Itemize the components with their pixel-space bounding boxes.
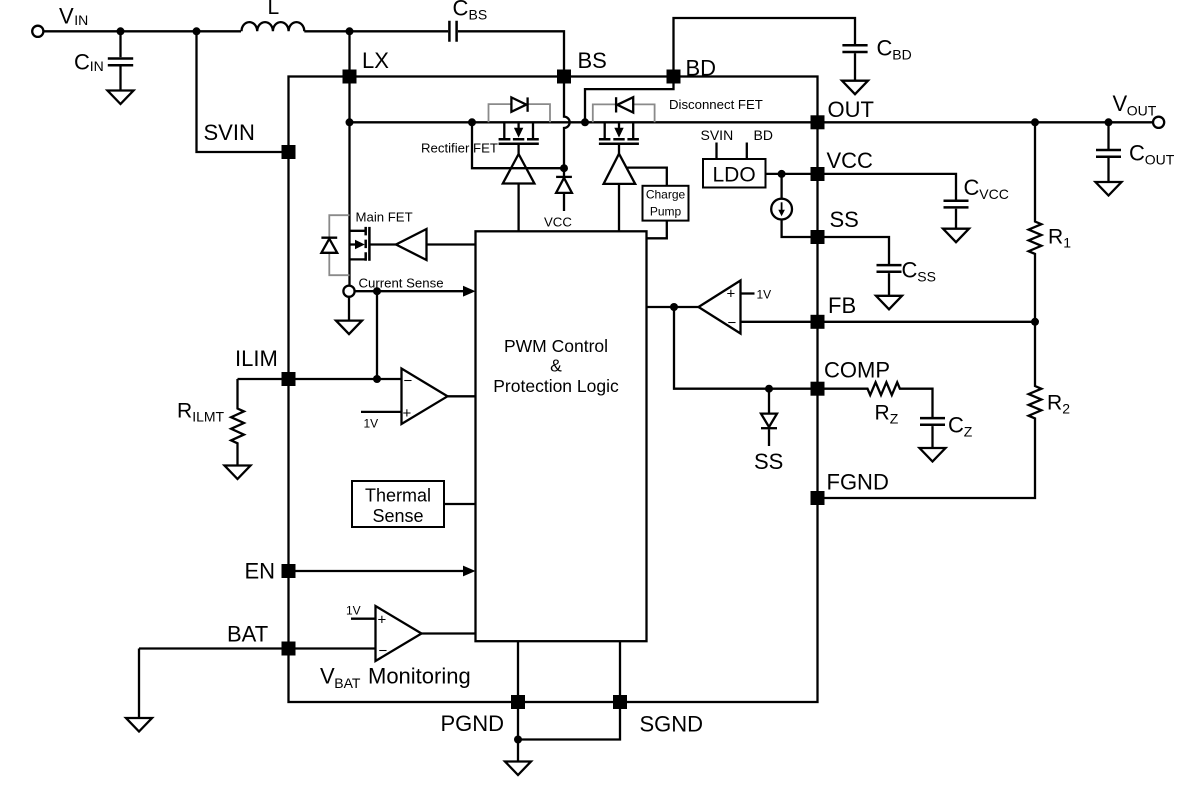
- svg-text:−: −: [379, 642, 388, 659]
- block PWM control: [476, 231, 647, 641]
- svg-text:1V: 1V: [346, 604, 361, 618]
- transistor rectifier FET body diode loop: [489, 104, 551, 122]
- ground CZ: [920, 448, 946, 462]
- node SS clamp junction: [765, 385, 773, 393]
- block charge pump: [643, 186, 689, 221]
- pin EN: [245, 559, 296, 584]
- ground BAT: [126, 718, 152, 732]
- pin ILIM: [235, 346, 296, 386]
- svg-text:BD: BD: [754, 127, 773, 143]
- terminal VIN: [32, 4, 88, 37]
- node disconnect drain junction: [581, 118, 589, 126]
- capacitor CVCC: [944, 175, 1009, 229]
- node switch LX junction: [346, 118, 354, 126]
- node BS bootstrap junction: [560, 164, 568, 172]
- svg-text:L: L: [268, 0, 280, 19]
- op-amp VBAT comparator: [320, 604, 476, 692]
- svg-text:IN: IN: [90, 58, 104, 74]
- node COUT junction: [1105, 118, 1113, 126]
- wire BD to CBD: [674, 18, 856, 70]
- wire main FET source to ground: [348, 297, 350, 321]
- ground CIN: [108, 91, 134, 105]
- pin OUT: [811, 97, 874, 129]
- svg-text:SS: SS: [917, 269, 936, 285]
- svg-text:Main FET: Main FET: [356, 210, 413, 225]
- wire logic to PGND: [517, 641, 519, 695]
- capacitor CIN: [74, 31, 133, 90]
- svg-text:1V: 1V: [364, 417, 379, 431]
- svg-text:Z: Z: [964, 424, 973, 440]
- svg-text:VCC: VCC: [979, 186, 1009, 202]
- svg-text:C: C: [453, 0, 469, 21]
- svg-text:R: R: [177, 399, 192, 422]
- wire logic to SGND: [619, 641, 621, 695]
- diode SS clamp: [754, 389, 783, 474]
- terminal VOUT: [1113, 91, 1165, 128]
- svg-text:VCC: VCC: [827, 148, 874, 173]
- svg-text:OUT: OUT: [1127, 103, 1157, 119]
- wire OUT to VOUT: [825, 121, 1154, 123]
- node FB divider junction: [1031, 318, 1039, 326]
- svg-text:PGND: PGND: [441, 711, 505, 736]
- buffer disconnect gate driver: [604, 154, 636, 232]
- capacitor CBS: [449, 0, 487, 42]
- capacitor CSS: [877, 258, 936, 296]
- transistor disconnect FET: [599, 97, 763, 154]
- pin SS: [811, 207, 859, 244]
- wire switch node LX to OUT: [350, 121, 811, 123]
- node ground tie junction: [514, 736, 522, 744]
- svg-text:Thermal: Thermal: [365, 486, 431, 506]
- svg-text:C: C: [964, 175, 980, 200]
- svg-text:V: V: [1113, 91, 1128, 116]
- pin BD: [667, 56, 717, 84]
- svg-text:LDO: LDO: [713, 164, 756, 187]
- resistor R1: [1029, 122, 1072, 321]
- current source SS charge: [771, 174, 810, 237]
- svg-text:BAT: BAT: [227, 622, 268, 647]
- svg-text:Z: Z: [890, 411, 899, 427]
- svg-text:R: R: [1048, 225, 1063, 248]
- pin PGND: [441, 695, 526, 736]
- svg-text:&: &: [550, 356, 562, 376]
- svg-text:BS: BS: [578, 48, 607, 73]
- pin SGND: [613, 695, 703, 737]
- pin VCC: [811, 148, 874, 181]
- svg-text:LX: LX: [362, 48, 389, 73]
- svg-text:−: −: [404, 372, 413, 389]
- ground CVCC: [943, 229, 969, 243]
- resistor R2: [825, 322, 1071, 498]
- wire BD to disconnect FET: [585, 84, 674, 123]
- current sense tap: [343, 276, 475, 297]
- svg-text:2: 2: [1062, 401, 1070, 417]
- svg-text:SS: SS: [830, 207, 859, 232]
- svg-text:BS: BS: [469, 7, 488, 23]
- svg-text:Current Sense: Current Sense: [359, 276, 444, 291]
- pin LX: [343, 48, 390, 84]
- svg-text:SVIN: SVIN: [204, 120, 255, 145]
- node rectifier source junction: [468, 118, 476, 126]
- wire L to CBS: [304, 30, 448, 32]
- ground system: [505, 762, 531, 776]
- node SVIN branch junction: [193, 27, 201, 35]
- pin FB: [811, 293, 857, 329]
- pin FGND: [811, 470, 889, 506]
- svg-text:+: +: [378, 611, 387, 628]
- svg-text:BAT: BAT: [334, 675, 361, 691]
- svg-text:−: −: [728, 315, 737, 332]
- svg-text:V: V: [59, 4, 74, 29]
- wire LX to main FET and current sense: [348, 84, 350, 286]
- transistor main FET body diode loop: [329, 215, 349, 275]
- resistor RZ: [825, 382, 933, 426]
- svg-text:Rectifier FET: Rectifier FET: [421, 141, 498, 156]
- buffer rectifier gate driver: [503, 154, 535, 231]
- svg-text:Disconnect FET: Disconnect FET: [669, 97, 763, 112]
- capacitor COUT: [1096, 122, 1175, 182]
- diode bootstrap VCC to BS: [544, 177, 572, 229]
- transistor rectifier FET: [421, 122, 539, 155]
- svg-text:R: R: [1047, 392, 1062, 415]
- svg-text:SVIN: SVIN: [701, 127, 734, 143]
- node VIN junction: [117, 27, 125, 35]
- svg-text:COMP: COMP: [824, 358, 890, 383]
- buffer main gate driver: [396, 229, 476, 260]
- svg-text:IN: IN: [74, 12, 88, 28]
- wire error output to COMP: [674, 307, 811, 389]
- diode main FET body: [321, 238, 337, 253]
- wire BAT net: [139, 647, 376, 649]
- transistor disconnect FET body diode loop: [593, 104, 655, 122]
- svg-text:SS: SS: [754, 449, 783, 474]
- svg-text:VCC: VCC: [544, 214, 572, 229]
- resistor RILMT: [177, 379, 244, 466]
- wire rectifier source to BS node: [472, 122, 564, 168]
- svg-text:FGND: FGND: [827, 470, 889, 495]
- ground COUT: [1096, 182, 1122, 196]
- svg-text:Protection Logic: Protection Logic: [493, 376, 619, 396]
- wire driver to charge pump: [627, 168, 667, 186]
- wire current sense to ILIM comparator: [376, 291, 378, 379]
- wire FB to divider: [825, 321, 1036, 323]
- transistor main FET: [350, 210, 413, 261]
- wire BS vertical with hop: [564, 84, 570, 177]
- node current sense junction: [373, 287, 381, 295]
- wire LDO to VCC pin: [766, 173, 811, 175]
- svg-text:C: C: [948, 413, 964, 438]
- node ILIM junction: [373, 375, 381, 383]
- svg-text:C: C: [74, 50, 90, 75]
- svg-text:Sense: Sense: [372, 506, 423, 526]
- wire CBS to BS: [458, 31, 564, 69]
- svg-text:Monitoring: Monitoring: [368, 664, 471, 689]
- svg-text:Pump: Pump: [650, 205, 682, 219]
- pin BS: [557, 48, 607, 84]
- diode rectifier body: [511, 97, 527, 111]
- svg-text:1: 1: [1063, 234, 1071, 250]
- node error output junction: [670, 303, 678, 311]
- svg-text:PWM Control: PWM Control: [504, 336, 608, 356]
- wire VIN rail: [44, 30, 241, 32]
- svg-text:V: V: [320, 664, 335, 689]
- pin SVIN: [204, 120, 296, 159]
- wire ILIM net: [238, 378, 402, 380]
- wire EN to logic: [296, 566, 476, 577]
- svg-text:+: +: [403, 405, 412, 422]
- block thermal sense: [352, 481, 476, 527]
- ground RILMT: [225, 466, 251, 480]
- wire error amp minus to FB: [741, 321, 811, 323]
- wire VCC to CVCC: [825, 174, 957, 200]
- svg-text:BD: BD: [686, 56, 717, 81]
- IC boundary: [289, 77, 818, 703]
- svg-text:OUT: OUT: [828, 97, 874, 122]
- svg-text:R: R: [875, 402, 890, 425]
- svg-text:1V: 1V: [757, 288, 772, 302]
- node R1 top junction: [1031, 118, 1039, 126]
- wire SVIN: [197, 31, 282, 152]
- svg-text:EN: EN: [245, 559, 276, 584]
- svg-text:C: C: [877, 36, 893, 61]
- node LX top junction: [346, 27, 354, 35]
- capacitor CBD: [842, 36, 911, 81]
- node LDO output junction: [778, 170, 786, 178]
- svg-text:SGND: SGND: [640, 712, 704, 737]
- pin BAT: [227, 622, 296, 656]
- op-amp ILIM comparator: [361, 369, 476, 431]
- wire LX drop: [348, 31, 350, 69]
- wire BAT to ground: [138, 649, 140, 719]
- wire tie to ground: [517, 740, 519, 762]
- svg-text:FB: FB: [828, 293, 856, 318]
- wire SS to CSS: [825, 237, 890, 264]
- pin COMP: [811, 358, 891, 396]
- svg-text:C: C: [902, 258, 918, 283]
- wire error amp output: [647, 306, 699, 308]
- ground main FET: [336, 321, 362, 335]
- wire PGND SGND tie: [518, 709, 620, 740]
- svg-text:OUT: OUT: [1145, 152, 1175, 168]
- ground CSS: [876, 296, 902, 310]
- inductor L: [242, 0, 305, 31]
- svg-text:C: C: [1129, 141, 1145, 166]
- svg-text:Charge: Charge: [646, 188, 686, 202]
- wire charge pump to logic: [647, 221, 667, 239]
- svg-text:ILIM: ILIM: [235, 346, 278, 371]
- block LDO: [701, 127, 773, 188]
- ground CBD: [842, 81, 868, 95]
- capacitor CZ: [920, 413, 973, 449]
- svg-text:+: +: [727, 286, 736, 303]
- svg-text:BD: BD: [892, 47, 911, 63]
- svg-text:ILMT: ILMT: [192, 408, 224, 424]
- diode disconnect body: [616, 97, 633, 112]
- op-amp error amplifier: [699, 281, 772, 334]
